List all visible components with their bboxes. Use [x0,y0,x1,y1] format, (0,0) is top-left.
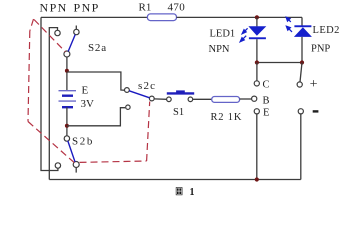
LED2 emission arrow upper [286,17,291,22]
wire battery bottom node to s2c lower contact [67,108,125,126]
pushbutton S1 right contact circle [188,97,193,102]
LED2 cathode bar [294,25,311,27]
svg-text:R1: R1 [139,2,152,14]
wire top horizontal left segment [41,16,147,18]
switch S2a PNP contact circle [74,29,79,34]
svg-text:E: E [82,84,89,96]
linkage dashed red: left vertical [28,31,30,122]
wire s2c pole to S1 [154,98,166,100]
wire left outer vertical [41,17,58,170]
label - [313,110,319,112]
switch S2b pole circle [73,162,79,168]
LED1 junction dot on top wire [255,15,259,19]
battery E plate short thick 2 [62,106,73,108]
wire bottom horizontal [49,179,300,181]
svg-text:NPN: NPN [209,44,230,55]
svg-text:s2c: s2c [138,80,156,92]
terminal + circle [297,82,302,87]
switch s2c lower contact circle [126,105,130,109]
switch s2c upper contact circle [125,88,130,93]
switch S2b lever (blue) [68,141,75,162]
pushbutton S1 actuator bar (blue) [167,92,194,94]
svg-text:PNP: PNP [311,44,330,55]
linkage dashed red: horizontal from S2b pole [80,161,147,162]
wire S1 to R2 [193,98,212,100]
wire top horizontal right segment [177,16,303,18]
wire NPN contact branch vertical [49,28,57,180]
LED1 cathode wire [256,39,258,62]
svg-text:LED2: LED2 [313,25,340,36]
junction dot LED2 bottom [300,60,304,64]
LED1 emission arrow upper [242,28,247,33]
switch S2a NPN contact circle [55,30,60,35]
svg-text:1: 1 [190,187,195,198]
switch S2b pole stub [75,168,77,173]
LED1 cathode bar [249,37,266,39]
svg-text:S2a: S2a [88,42,107,54]
switch S2a lever (blue) [68,35,75,52]
linkage dashed red: apex to S2a pole [34,20,65,52]
battery E plate short thick 1 [62,94,73,96]
pushbutton S1 actuator stem (blue) [176,90,185,92]
svg-text:S2b: S2b [72,136,94,148]
svg-text:R2 1K: R2 1K [211,112,243,123]
battery E plate long thin 2 [59,100,77,102]
switch S2a pole circle [64,51,70,57]
switch S2b left contact circle [55,163,60,168]
caption 图 1 (figure 1) [176,187,183,195]
wire battery top node to s2c upper contact [67,72,125,90]
resistor R1 [147,14,176,21]
LED1 anode wire [256,17,258,26]
resistor R2 [212,97,240,103]
svg-text:C: C [263,80,270,91]
svg-text:470: 470 [168,2,186,14]
wire LED bottoms horizontal [257,62,302,64]
switch s2c pole circle [149,96,154,101]
junction dot LED1 bottom [255,60,259,64]
wire R2 to terminal B [240,98,252,100]
linkage dashed red: apex down-left [30,19,34,31]
svg-text:+: + [310,77,318,92]
junction dot battery bottom node [65,124,69,128]
wire terminal E down to bottom wire [256,114,258,180]
terminal B circle [252,96,257,101]
pushbutton S1 left contact circle [167,97,172,102]
svg-text:B: B [263,95,270,106]
svg-text:LED1: LED1 [210,29,236,40]
svg-text:3V: 3V [81,98,95,110]
switch s2c lever (blue) [129,91,149,98]
linkage dashed red: vertical up to s2c pole [147,102,150,162]
wire LED1 bottom to terminal C [256,63,258,81]
svg-text:E: E [263,108,269,119]
terminal E circle [254,109,259,114]
LED2 anode wire [301,37,303,63]
switch S2b top contact circle [64,136,69,141]
LED2 emission arrow lower [286,26,292,32]
wire S2a pole to battery [66,57,68,90]
battery E plate long thin 1 [59,90,77,92]
wire terminal - down to bottom wire [300,114,302,180]
LED1 triangle (blue, pointing down) [248,26,266,36]
junction dot bottom wire at E branch [255,177,259,181]
terminal - circle [298,109,303,114]
linkage dashed red: diagonal to S2b pole [28,122,74,163]
LED2 triangle (blue, pointing up) [294,27,312,37]
svg-text:PNP: PNP [74,0,100,14]
wire top-right corner down to LED2 [301,17,303,25]
LED1 emission arrow lower [240,36,246,42]
svg-text:NPN: NPN [40,0,68,14]
svg-text:S1: S1 [173,107,184,118]
terminal C circle [254,81,259,86]
wire LED2 bottom to terminal + [300,63,302,83]
wire PNP contact stub [75,26,77,30]
junction dot battery top node [65,69,69,73]
wire battery bottom [66,107,68,136]
